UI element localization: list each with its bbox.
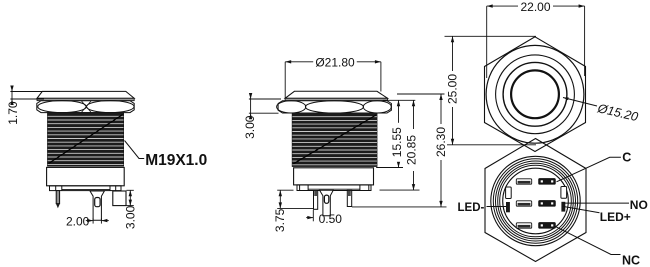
base plate [297,185,371,191]
keyway left outline [506,187,512,199]
svg-text:20.85: 20.85 [405,135,419,165]
hex body outline (bottom view) [485,139,586,262]
svg-text:3.75: 3.75 [273,208,287,232]
bezel facet ellipse right [87,101,135,113]
housing body [47,167,125,185]
dimension Ø21.80 (head diameter) [285,56,381,98]
thread diagonal [49,115,123,164]
bezel facet ellipse left [38,101,87,113]
label NO with leader [564,198,648,212]
svg-text:LED+: LED+ [600,210,631,224]
LED- pin (left dark bar) [506,202,510,212]
center flat terminal with hole [90,191,104,220]
head side band gray [285,98,388,100]
svg-text:26.30: 26.30 [434,127,448,157]
label NC with leader [556,227,641,267]
dimension 26.30 (overall length) [352,94,448,207]
threaded body [48,113,124,166]
slot NC row3 right [539,223,556,229]
pin terminal (left, pointed) [56,191,59,204]
head hex bezel band [278,101,391,113]
svg-text:15.55: 15.55 [390,127,404,157]
slot NC row1 left [516,179,531,184]
svg-text:C: C [622,151,631,165]
label C with leader [557,151,632,182]
right flat terminal [113,191,126,206]
dimension 20.85 (body length) [380,100,420,190]
button circle [511,70,559,118]
slot row2 left [516,201,531,206]
svg-text:M19X1.0: M19X1.0 [145,152,207,169]
svg-text:NC: NC [622,254,640,267]
head top face [37,91,134,98]
head hex bezel band [37,101,134,113]
dimension 3.75 (terminal length) [273,190,313,232]
svg-text:22.00: 22.00 [520,0,550,14]
svg-text:Ø21.80: Ø21.80 [315,56,355,70]
middle view: pushbutton side elevation 2 [277,91,392,215]
bezel facet crossing [82,101,92,112]
svg-text:1.70: 1.70 [6,101,20,125]
svg-text:2.00: 2.00 [66,215,90,229]
housing body [294,168,374,185]
dimension 3.00 (right terminal length, left view) [124,190,138,229]
slot row3 left [516,223,531,228]
svg-text:3.00: 3.00 [124,205,138,229]
left view: pushbutton side elevation [37,91,134,220]
threaded body [292,113,377,166]
keyway right outline [561,187,567,199]
dimension 2.00 (center terminal width) [66,215,109,229]
base plate [50,186,122,191]
center flat terminal with hole [320,190,334,215]
head side band (gray) [37,98,134,100]
base notch lines [299,185,301,191]
svg-text:0.50: 0.50 [319,212,343,226]
svg-text:25.00: 25.00 [446,74,460,104]
terminal area circle [503,168,569,234]
thread diagonal [293,115,376,164]
bezel facet right [363,101,391,113]
LED+ pin (right dark bar) [561,202,565,212]
bezel circle [496,55,575,134]
body rings [491,156,580,245]
bottom view: hex body with terminals [485,139,586,262]
base notch lines [55,186,57,191]
right flat terminal (edge-on) [347,190,351,206]
bezel facet middle [305,101,363,113]
dimension 22.00 (across flats) [487,0,585,78]
left flat terminal (edge-on) [314,191,318,210]
label LED- with leader [458,202,507,214]
slot NO row2 right [539,201,556,207]
nut outer circle [486,45,584,143]
label LED+ with leader [564,207,631,224]
label Ø15.20 (button diameter) with leader [563,97,639,124]
dimension 1.70 (head height) [6,86,60,125]
svg-text:NO: NO [630,198,648,212]
top view: hex nut with button face [485,37,586,152]
dimension 25.00 (nut corner width) [445,36,537,145]
svg-text:LED-: LED- [458,202,485,214]
bezel inner circle [503,62,567,126]
hex nut outline (top view) [485,37,586,152]
svg-text:3.00: 3.00 [243,115,257,139]
dimension 0.50 (terminal thickness) [306,210,342,226]
bezel facet left [277,101,306,113]
slot C row1 right [539,179,556,185]
dimension 15.55 (thread length) [376,100,415,167]
label M19X1.0 thread spec [125,141,208,169]
dimension 3.00 (head height, middle view) [243,93,281,139]
head top face [285,91,388,98]
